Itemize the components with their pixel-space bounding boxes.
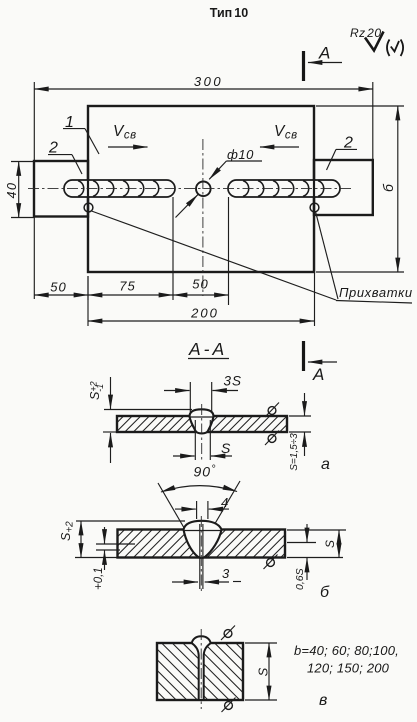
dimension 75 (88, 197, 173, 300)
dimension б (right) (316, 106, 404, 272)
weld в (192, 636, 211, 700)
centerline б (200, 516, 202, 592)
svg-text:A: A (312, 365, 324, 384)
finish symbol a bottom (265, 431, 279, 446)
tack weld circle left (84, 203, 93, 212)
dimension 3S (top) (164, 374, 242, 413)
svg-text:40: 40 (5, 182, 19, 199)
bar б outline (118, 530, 286, 558)
label 1 with leader (63, 114, 99, 154)
bar a outline (117, 416, 287, 432)
dimension 3 (bottom) (172, 566, 241, 582)
dimension S (below a) (173, 420, 232, 460)
gap lines б (199, 524, 201, 589)
svg-text:75: 75 (119, 279, 135, 294)
Vсв right with arrow (260, 123, 299, 147)
section title A-A (188, 339, 229, 359)
svg-text:+0,1: +0,1 (93, 567, 105, 590)
svg-text:b=40; 60; 80;100,: b=40; 60; 80;100, (294, 643, 399, 658)
finish symbol б (264, 555, 278, 570)
dimension S+2-1 (left) (88, 377, 117, 463)
label ф10 with leader (176, 147, 263, 218)
svg-text:S: S (323, 540, 337, 548)
bar б hatching (84, 526, 322, 562)
centerline vertical through hole (202, 139, 204, 296)
svg-text:Тип 10: Тип 10 (210, 6, 248, 20)
centerline weld a (201, 404, 203, 462)
dimension S+2 (left) (59, 521, 118, 558)
svg-text:б: б (380, 183, 396, 192)
svg-text:300: 300 (194, 74, 223, 89)
weld б (184, 521, 222, 558)
right tab (314, 160, 373, 215)
finish symbol a top (265, 403, 279, 418)
roughness check symbol (365, 32, 384, 51)
left tab (34, 161, 88, 217)
svg-text:50: 50 (50, 280, 66, 295)
svg-text:120; 150; 200: 120; 150; 200 (307, 661, 390, 676)
weld a (190, 409, 214, 433)
finish symbol в bottom (222, 698, 236, 713)
svg-text:3S: 3S (224, 374, 243, 389)
hole ф10 (196, 182, 211, 197)
dimension 200 (88, 217, 315, 326)
(check) symbol (387, 40, 390, 57)
section cut mark top (304, 44, 343, 82)
svg-text:2: 2 (48, 140, 58, 157)
svg-text:ф10: ф10 (227, 147, 254, 162)
label Прихватки with leaders (92, 211, 413, 303)
svg-text:Прихватки: Прихватки (339, 285, 413, 300)
dimension 4 (175, 495, 229, 519)
dimension 50 right (173, 197, 229, 305)
plate edge through right bead (313, 179, 315, 198)
centerline horizontal (28, 188, 352, 190)
svg-text:A: A (318, 44, 330, 63)
weld bead left (64, 180, 175, 197)
dome tangent a (104, 409, 192, 411)
svg-text:200: 200 (190, 306, 219, 321)
section cut mark bottom (304, 341, 338, 384)
weld bead right (228, 180, 340, 197)
dimension 50 left (34, 280, 88, 296)
plate (main) (88, 106, 314, 272)
dimension S (right в) (245, 643, 277, 700)
svg-text:S: S (256, 667, 271, 676)
dimension S (right б) (323, 530, 339, 558)
block в hatching (94, 639, 307, 704)
svg-text:а: а (321, 456, 330, 473)
svg-text:б: б (320, 584, 330, 601)
plate edge through left bead (87, 179, 89, 198)
dimension 0,6S (right) (287, 524, 346, 590)
svg-text:A-A: A-A (188, 339, 227, 359)
dimension +0,1 (left small) (93, 527, 135, 590)
svg-text:S=1,5÷3: S=1,5÷3 (289, 433, 300, 471)
angle 90 deg (158, 464, 240, 530)
block в outline (157, 643, 243, 700)
label 2 right with leader (327, 135, 358, 171)
svg-text:3: 3 (222, 566, 230, 581)
label 2 left with leader (48, 140, 82, 175)
dimension 40 (5, 162, 34, 218)
dome tangent б (76, 520, 185, 522)
dimension S=1,5÷3 (right) (289, 393, 311, 471)
bar a hatching (95, 412, 308, 436)
svg-text:4: 4 (221, 495, 228, 510)
svg-text:50: 50 (192, 277, 208, 292)
dimension 300 (34, 74, 373, 299)
svg-text:0,6S: 0,6S (294, 568, 306, 590)
finish symbol в top (221, 626, 235, 641)
svg-text:S: S (221, 440, 231, 456)
svg-text:в: в (319, 692, 327, 709)
bar top edge through weld б (184, 530, 221, 532)
Vсв left with arrow (108, 123, 148, 147)
tack weld circle right (310, 203, 319, 212)
bar top edge through weld a (190, 416, 213, 418)
centerline в (200, 629, 202, 709)
